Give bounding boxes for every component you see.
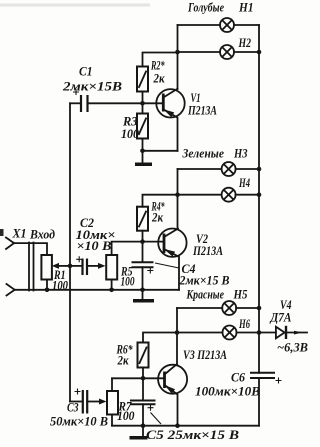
svg-text:С6: С6 xyxy=(231,370,245,385)
wire base V3 xyxy=(112,377,165,379)
resistor R2 xyxy=(137,53,178,114)
potentiometer R1 xyxy=(14,243,70,290)
scan artifact left edge xyxy=(0,229,4,236)
node junction H2/bus xyxy=(175,50,180,55)
wire node A vertical xyxy=(69,103,71,401)
resistor R5 xyxy=(106,255,117,290)
svg-text:100: 100 xyxy=(121,274,135,289)
node junction base V3 xyxy=(141,376,146,381)
node junction R5/ground xyxy=(109,288,114,293)
wire emitter V1 to ground xyxy=(143,150,178,152)
node junction R3/emitter xyxy=(140,149,145,154)
node junction base V1 xyxy=(140,101,145,106)
node junction H2/rail xyxy=(257,50,262,55)
lamp H2 xyxy=(178,45,260,59)
wire right supply rail xyxy=(258,25,260,426)
resistor R6 xyxy=(138,333,178,379)
node junction H4/bus xyxy=(175,192,180,197)
svg-text:100мк×10В: 100мк×10В xyxy=(195,384,260,399)
svg-text:Д7А: Д7А xyxy=(270,310,292,325)
svg-text:×10 В: ×10 В xyxy=(77,238,112,253)
scan artifact top edge xyxy=(0,4,150,7)
capacitor C6 xyxy=(250,373,282,384)
svg-text:Н3: Н3 xyxy=(233,146,248,161)
node junction H6/bus xyxy=(175,330,180,335)
node junction H3/rail xyxy=(257,167,262,172)
svg-text:Н4: Н4 xyxy=(238,175,250,190)
node junction emitter V3/ground rail xyxy=(175,423,180,428)
svg-text:Н5: Н5 xyxy=(233,287,248,302)
ground channel 2 xyxy=(133,290,154,303)
svg-text:2к: 2к xyxy=(151,210,163,225)
svg-text:С5 25мк×15 В: С5 25мк×15 В xyxy=(146,427,239,442)
input pin bottom xyxy=(7,284,15,296)
svg-text:V3 П213А: V3 П213А xyxy=(183,347,227,362)
node junction C5/ground rail xyxy=(141,423,146,428)
svg-text:100: 100 xyxy=(121,126,139,141)
ground channel 1 xyxy=(135,151,152,166)
lamp H4 xyxy=(178,188,260,202)
wire base V2 xyxy=(112,242,164,255)
node junction H6/rail/diode xyxy=(257,330,262,335)
svg-text:П213А: П213А xyxy=(187,103,217,118)
wire input ground xyxy=(15,289,179,291)
node junction R1/ground xyxy=(45,288,50,293)
svg-text:Н6: Н6 xyxy=(238,316,250,331)
svg-text:100: 100 xyxy=(117,408,135,423)
lamp H6 xyxy=(177,326,259,340)
wire pointer C4 xyxy=(155,263,179,268)
transistor V1 xyxy=(156,89,184,151)
lamp H1 xyxy=(178,18,260,32)
resistor R4 xyxy=(137,195,178,242)
svg-text:П213А: П213А xyxy=(192,243,223,258)
node junction base V2 xyxy=(140,239,145,244)
svg-text:Голубые: Голубые xyxy=(187,0,224,15)
resistor R7 xyxy=(107,378,118,425)
capacitor C5 xyxy=(130,378,156,425)
capacitor C4 xyxy=(132,242,154,290)
svg-text:2мк×15 В: 2мк×15 В xyxy=(179,273,230,288)
node junction C4/ground xyxy=(140,288,145,293)
wire bottom ground rail xyxy=(112,425,259,427)
node A junction xyxy=(68,264,73,269)
resistor R3 xyxy=(137,114,148,151)
wire collector bus V1 xyxy=(177,25,179,89)
svg-text:Н1: Н1 xyxy=(238,0,253,15)
svg-text:Зеленые: Зеленые xyxy=(182,146,225,161)
svg-text:Н2: Н2 xyxy=(238,35,252,50)
diode V4 xyxy=(259,326,307,339)
input pin top xyxy=(6,238,14,250)
svg-text:Вход: Вход xyxy=(29,227,55,242)
svg-text:2к: 2к xyxy=(153,71,165,86)
connector X1 xyxy=(29,243,34,291)
svg-text:2к: 2к xyxy=(117,353,129,368)
ground channel 3 xyxy=(130,426,148,440)
svg-text:~6,3В: ~6,3В xyxy=(277,340,308,355)
svg-text:С1: С1 xyxy=(79,64,93,79)
transistor V3 xyxy=(158,364,187,426)
svg-text:Х1: Х1 xyxy=(12,226,27,241)
capacitor C2 xyxy=(70,256,106,275)
node junction H4/rail xyxy=(257,192,262,197)
svg-text:2мк×15В: 2мк×15В xyxy=(62,79,123,94)
wire collector bus V2 xyxy=(177,169,179,229)
svg-text:50мк×10 В: 50мк×10 В xyxy=(50,414,108,429)
capacitor C3 xyxy=(70,389,107,414)
wire collector bus V3 xyxy=(176,308,178,364)
capacitor C1 xyxy=(70,89,163,112)
wire pointer C5 xyxy=(151,413,162,425)
svg-text:С3: С3 xyxy=(67,400,79,415)
lamp H3 xyxy=(178,162,260,176)
svg-text:Красные: Красные xyxy=(186,287,224,302)
lamp H5 xyxy=(177,301,259,315)
transistor V2 xyxy=(158,229,186,290)
node junction H5/rail xyxy=(257,306,262,311)
